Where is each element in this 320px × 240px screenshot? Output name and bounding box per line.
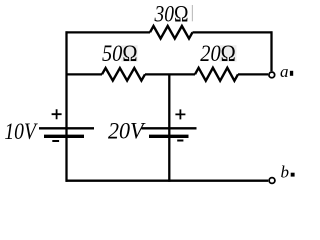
wire right vertical to terminal a [270, 31, 272, 71]
wire top-right horizontal segment [193, 31, 273, 33]
wire middle 20ohm-to-terminal-a segment [238, 73, 268, 75]
label 20ohm gray box artifact [220, 45, 237, 62]
battery V1 10V short negative plate [44, 135, 84, 138]
label a trailing square artifact [290, 71, 293, 76]
label b trailing square artifact [291, 173, 295, 177]
battery V2 plus sign [175, 109, 185, 119]
svg-text:b: b [281, 163, 290, 182]
battery V2 20V short negative plate [149, 135, 189, 138]
battery V1 minus sign [52, 140, 59, 142]
wire top-left horizontal segment [66, 31, 151, 33]
battery V1 10V long positive plate [39, 127, 94, 129]
label 50ohm gray box artifact [121, 45, 137, 62]
terminal a open circle [269, 72, 275, 78]
label 30ohm gray box artifact [174, 5, 192, 22]
svg-text:30Ω: 30Ω [154, 1, 189, 26]
svg-text:20Ω: 20Ω [200, 41, 236, 66]
battery V2 minus sign [177, 140, 183, 142]
svg-text:20V: 20V [108, 119, 146, 144]
svg-text:10V: 10V [4, 119, 38, 144]
resistor 20ohm zigzag [195, 68, 238, 81]
resistor 30ohm zigzag [150, 26, 193, 39]
wire middle 50ohm-to-20ohm segment [145, 73, 195, 75]
battery V2 20V long positive plate [142, 127, 197, 129]
svg-text:50Ω: 50Ω [102, 41, 138, 66]
resistor 50ohm zigzag [102, 68, 145, 81]
wire left rail vertical [65, 31, 67, 181]
terminal b open circle [269, 178, 275, 184]
wire 20V branch vertical [168, 74, 170, 181]
battery V1 plus sign [52, 109, 62, 119]
svg-text:a: a [280, 62, 289, 81]
wire bottom horizontal [66, 180, 269, 182]
wire middle rail-to-50ohm segment [67, 73, 103, 75]
